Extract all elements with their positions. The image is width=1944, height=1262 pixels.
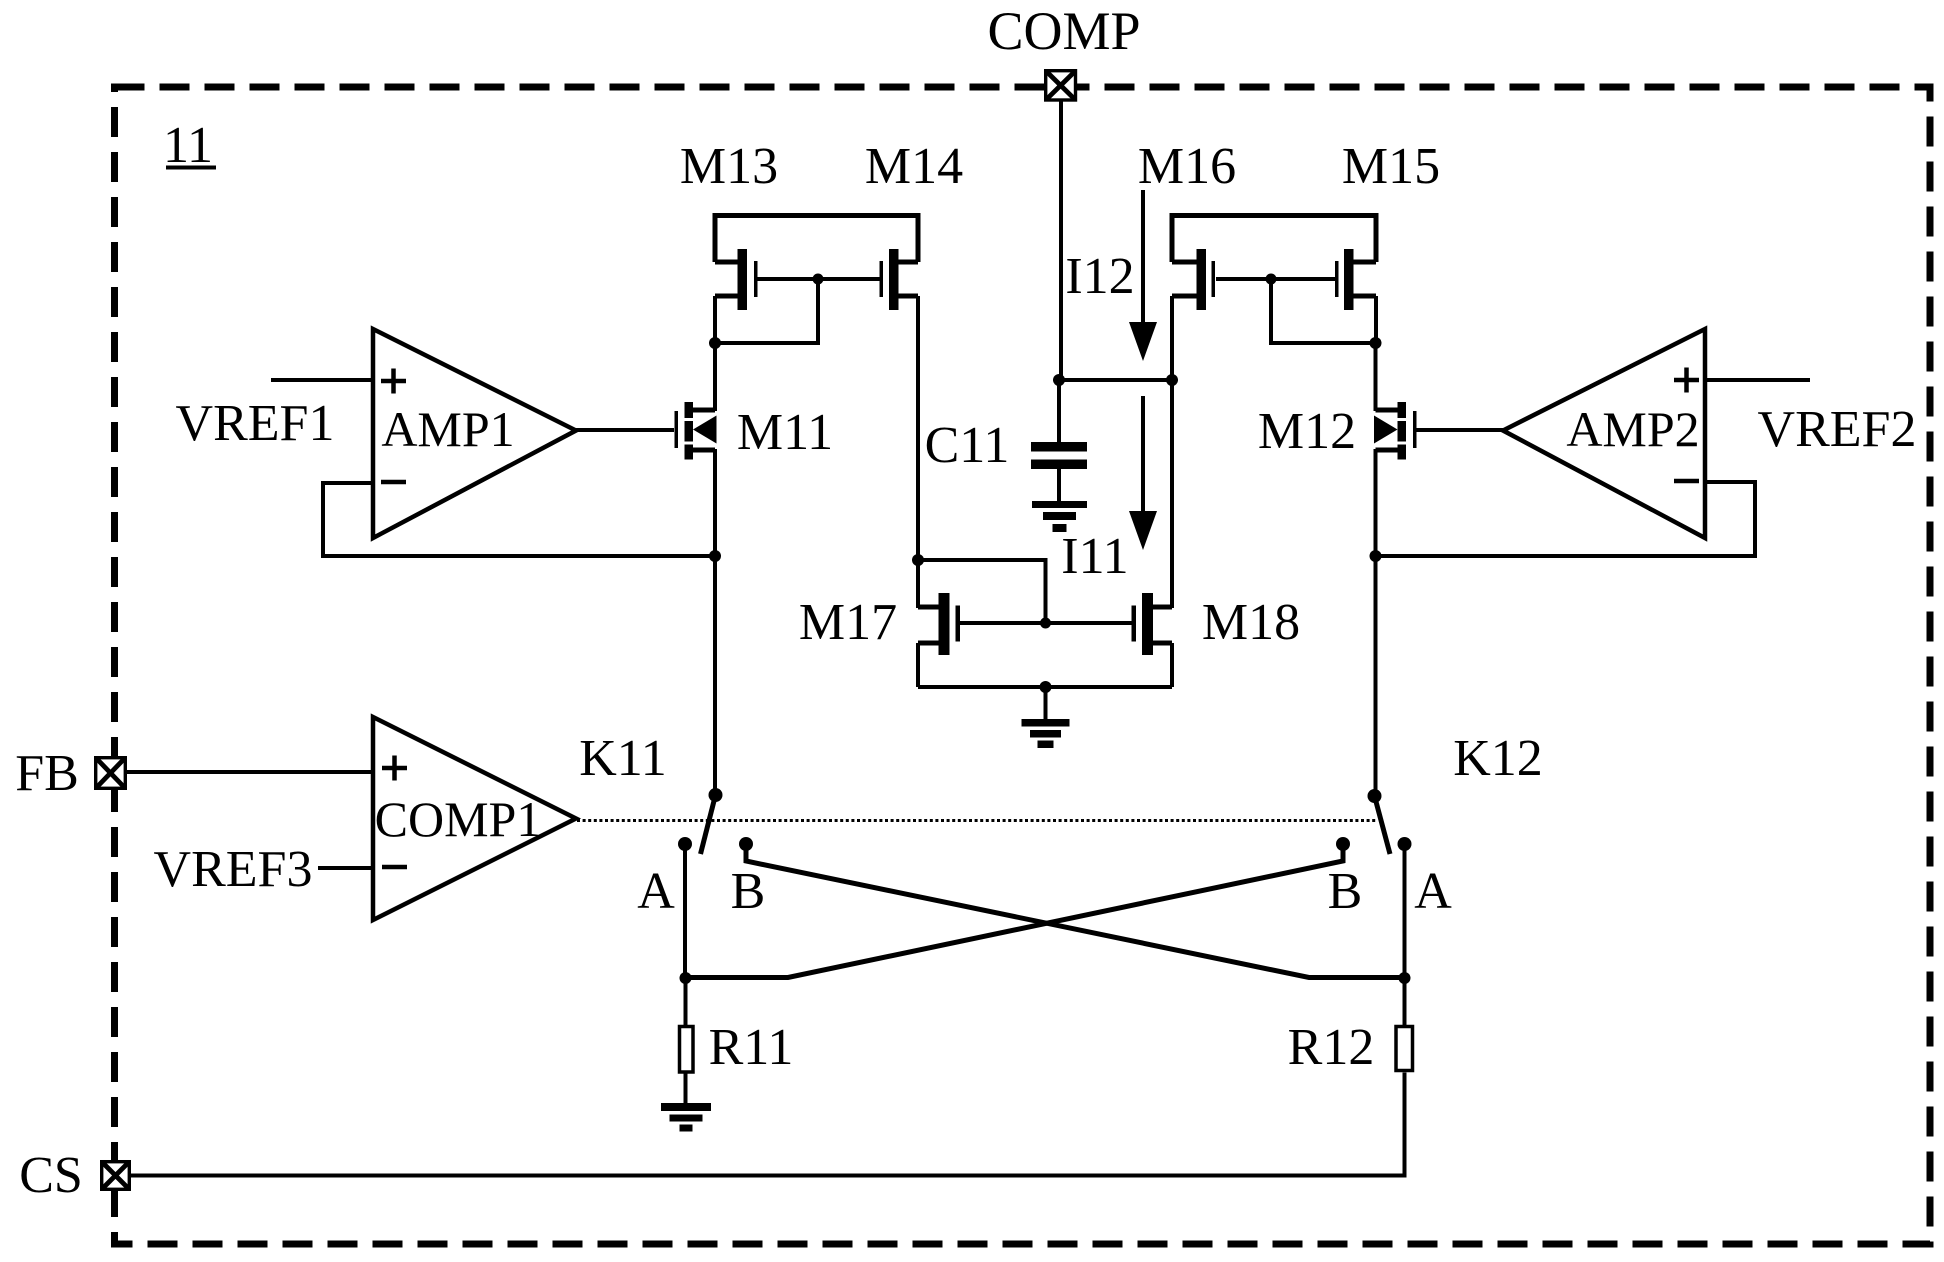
svg-text:M12: M12 — [1258, 403, 1356, 460]
wire: gate node to M18 gate — [1046, 621, 1133, 625]
wire: M17/M18 common source to ground — [918, 685, 1172, 689]
current arrow I12 — [1129, 190, 1157, 361]
wire: gate node to M14 gate — [818, 277, 880, 281]
svg-text:R11: R11 — [709, 1019, 794, 1076]
wire: AMP1 output to M11 gate — [576, 428, 674, 432]
wire: M13/M14 common source rail (top) — [715, 216, 918, 263]
wire: R12 down to CS line — [131, 1073, 1405, 1176]
wire: R11 to ground — [684, 1073, 688, 1104]
current arrow I11 — [1129, 396, 1157, 550]
wire: junction to M12 drain — [1374, 343, 1378, 411]
wire: M17 source rail — [916, 643, 920, 687]
wire: K12 B contact cross to R11 node — [686, 845, 1344, 978]
node: COMP / C11 node — [1053, 374, 1065, 386]
svg-text:VREF1: VREF1 — [176, 395, 335, 452]
svg-text:I11: I11 — [1061, 528, 1128, 585]
ground (M17/M18) — [1022, 719, 1070, 748]
wire: M16 drain rail down — [1170, 296, 1174, 608]
wire: VREF2 to AMP2 + input — [1705, 378, 1810, 382]
junction on M16 drain rail — [1166, 374, 1178, 386]
junction: R11 top node — [680, 972, 692, 984]
svg-text:R12: R12 — [1288, 1019, 1375, 1076]
svg-text:B: B — [731, 863, 766, 920]
wire: VREF3 to COMP1 - input — [318, 866, 373, 870]
resistor R11 — [680, 1027, 694, 1073]
junction: M14 drain / M17 drain — [912, 554, 924, 566]
svg-text:M14: M14 — [865, 138, 963, 195]
wire: M16/M15 common source rail (top) — [1172, 216, 1376, 263]
junction: M11 source feedback node — [709, 550, 721, 562]
terminal CS — [102, 1162, 130, 1190]
wire COMP terminal to node — [1059, 101, 1063, 380]
wire: AMP2 output to M12 gate — [1417, 428, 1504, 432]
wire: node to R12 — [1403, 978, 1407, 1025]
wire: K11 A contact down to R11 node — [683, 844, 687, 978]
switch K12 — [1336, 789, 1412, 854]
svg-text:A: A — [1414, 863, 1452, 920]
wire: M13 diode connection (gate to drain) — [715, 279, 818, 343]
svg-text:VREF2: VREF2 — [1758, 401, 1917, 458]
resistor R12 — [1396, 1027, 1413, 1071]
svg-text:K11: K11 — [579, 730, 667, 787]
node: M17/M18 gate tie — [1040, 618, 1051, 629]
op-amp AMP2 — [1503, 329, 1705, 538]
transistor M18 — [1132, 593, 1173, 655]
wire: COMP1 output control (dotted) — [577, 819, 1376, 822]
block label 11 — [163, 117, 216, 174]
wire: node to ground — [1044, 687, 1048, 719]
svg-text:M13: M13 — [680, 138, 778, 195]
ground (C11) — [1032, 501, 1087, 532]
transistor M13 — [715, 249, 818, 310]
wire: M18 source rail — [1170, 643, 1174, 687]
svg-text:C11: C11 — [925, 417, 1010, 474]
transistor M12 — [1374, 402, 1417, 460]
transistor M15 — [1335, 249, 1376, 310]
wire: M12 source rail down — [1374, 449, 1378, 556]
wire: M15 drain rail — [1374, 296, 1378, 343]
terminal COMP — [1046, 71, 1076, 100]
wire: M14 drain rail down — [916, 296, 920, 608]
junction: source/ground node — [1040, 681, 1052, 693]
wire: FB to COMP1 + input — [127, 770, 373, 774]
wire: gate node to M15 gate — [1271, 277, 1335, 281]
svg-text:COMP: COMP — [987, 1, 1140, 61]
svg-text:COMP1: COMP1 — [375, 791, 542, 847]
junction: M12 source feedback node — [1370, 550, 1382, 562]
svg-text:11: 11 — [163, 117, 213, 174]
junction: M15 drain / M12 drain — [1370, 337, 1382, 349]
svg-text:FB: FB — [15, 745, 79, 802]
wire: node to R11 — [684, 978, 688, 1025]
wire: AMP2 - input feedback — [1376, 482, 1756, 556]
wire: M11 source rail down — [713, 449, 717, 556]
transistor M14 — [880, 249, 919, 310]
wire: M11 source to K11 — [713, 556, 717, 795]
comparator COMP1 — [373, 717, 576, 920]
svg-text:A: A — [637, 863, 675, 920]
svg-text:M18: M18 — [1202, 594, 1300, 651]
ground (R11) — [661, 1103, 711, 1132]
transistor M11 — [675, 402, 717, 460]
svg-text:VREF3: VREF3 — [154, 841, 313, 898]
wire: M13 drain rail — [713, 296, 717, 343]
svg-text:M17: M17 — [799, 594, 897, 651]
wire: AMP1 - input feedback — [323, 483, 715, 556]
svg-text:AMP1: AMP1 — [381, 401, 514, 457]
svg-text:I12: I12 — [1065, 248, 1134, 305]
wire: COMP node to M16 drain rail — [1059, 378, 1172, 382]
node: M13/M14 gate tie — [813, 274, 824, 285]
junction: R12 top node — [1399, 972, 1411, 984]
terminal FB — [96, 758, 126, 789]
wire: K11 B contact cross to R12 node — [746, 845, 1405, 978]
capacitor C11 — [1031, 380, 1087, 503]
wire: K12 A contact down to R12 node — [1403, 844, 1407, 978]
svg-text:CS: CS — [19, 1147, 83, 1204]
svg-text:M15: M15 — [1342, 138, 1440, 195]
wire: VREF1 to AMP1 + input — [271, 378, 373, 382]
svg-text:M16: M16 — [1138, 138, 1236, 195]
op-amp AMP1 — [373, 329, 576, 538]
node: M16/M15 gate tie — [1266, 274, 1277, 285]
wire: M12 source to K12 — [1374, 556, 1378, 796]
junction: M13 drain / M11 drain — [709, 337, 721, 349]
svg-text:AMP2: AMP2 — [1566, 401, 1699, 457]
wire: M15 diode connection (gate to drain) — [1271, 279, 1376, 343]
transistor M17 — [918, 593, 1046, 655]
svg-text:K12: K12 — [1453, 730, 1543, 787]
svg-text:M11: M11 — [737, 404, 833, 461]
wire: junction to M11 drain — [713, 343, 717, 411]
transistor M16 — [1172, 249, 1271, 310]
svg-text:B: B — [1328, 863, 1363, 920]
wire: M17 diode connection to gate node — [918, 560, 1046, 623]
switch K11 — [678, 788, 753, 854]
